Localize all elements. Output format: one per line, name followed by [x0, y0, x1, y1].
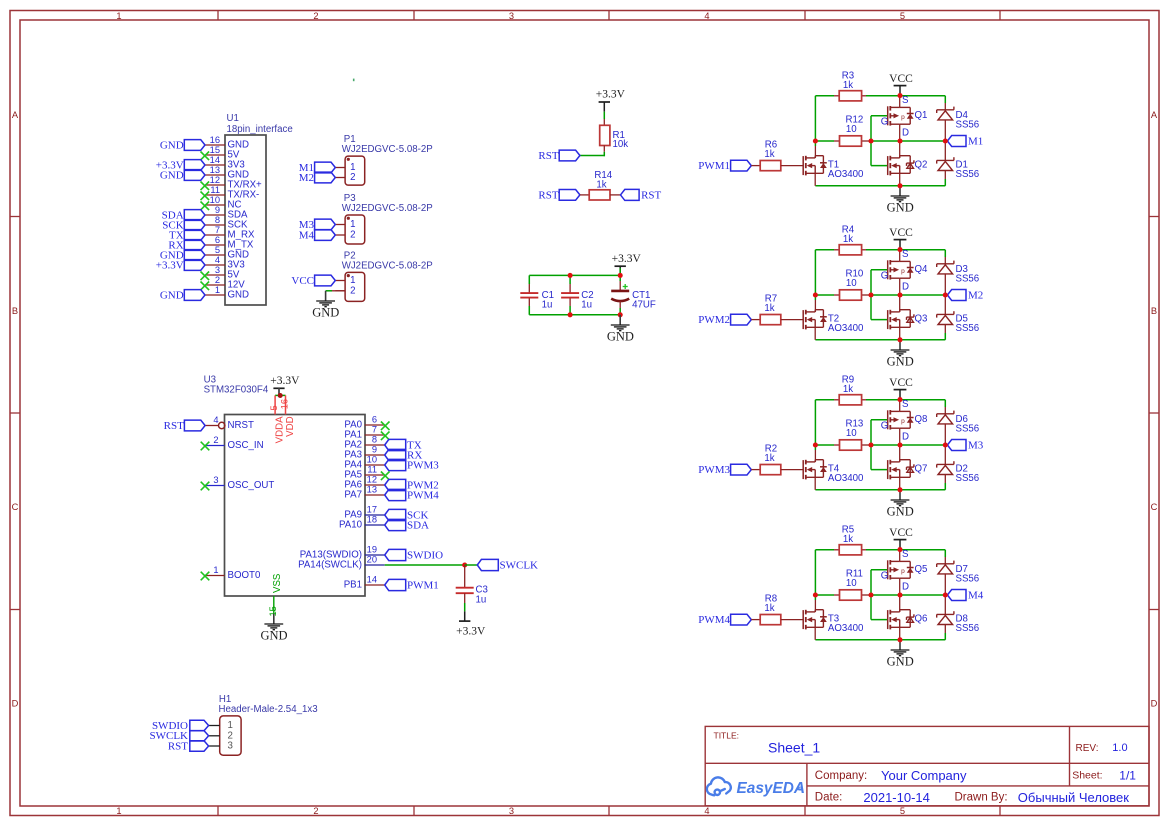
svg-text:16: 16: [280, 399, 290, 409]
svg-text:SS56: SS56: [956, 274, 980, 285]
svg-text:14: 14: [367, 575, 377, 585]
svg-text:15: 15: [268, 606, 278, 616]
svg-text:GND: GND: [260, 628, 287, 642]
svg-text:7: 7: [372, 425, 377, 435]
svg-text:1k: 1k: [843, 234, 853, 245]
svg-text:GND: GND: [887, 504, 914, 518]
svg-text:19: 19: [367, 545, 377, 555]
svg-text:GND: GND: [160, 169, 184, 181]
svg-text:D: D: [902, 431, 909, 442]
svg-text:1: 1: [116, 806, 121, 816]
svg-text:B: B: [12, 306, 18, 316]
svg-text:PA7: PA7: [344, 490, 362, 501]
svg-text:GND: GND: [228, 290, 250, 301]
svg-text:1: 1: [213, 565, 218, 575]
svg-text:VDDA: VDDA: [275, 416, 286, 443]
svg-text:SDA: SDA: [407, 519, 429, 531]
svg-text:G: G: [881, 420, 889, 431]
svg-text:15: 15: [210, 145, 220, 155]
svg-text:RST: RST: [168, 740, 188, 752]
svg-text:S: S: [902, 95, 909, 106]
svg-text:2: 2: [350, 172, 355, 183]
svg-text:VSS: VSS: [272, 573, 283, 593]
svg-text:SS56: SS56: [956, 574, 980, 585]
svg-text:p: p: [901, 114, 905, 121]
svg-text:8: 8: [215, 215, 220, 225]
svg-text:1: 1: [116, 11, 121, 21]
svg-text:5: 5: [900, 806, 905, 816]
svg-text:Q3: Q3: [915, 313, 928, 324]
svg-text:2: 2: [350, 285, 355, 296]
svg-text:1/1: 1/1: [1119, 768, 1136, 782]
svg-text:18pin_interface: 18pin_interface: [227, 124, 293, 135]
svg-text:p: p: [901, 568, 905, 575]
svg-text:GND: GND: [607, 329, 634, 343]
svg-text:2: 2: [313, 11, 318, 21]
svg-text:EasyEDA: EasyEDA: [737, 780, 805, 797]
svg-text:WJ2EDGVC-5.08-2P: WJ2EDGVC-5.08-2P: [342, 260, 433, 271]
svg-text:3: 3: [509, 11, 514, 21]
svg-text:SS56: SS56: [956, 473, 980, 484]
svg-text:4: 4: [213, 415, 218, 425]
svg-text:D: D: [902, 127, 909, 138]
svg-text:3: 3: [213, 475, 218, 485]
svg-text:VCC: VCC: [889, 377, 913, 389]
svg-text:Header-Male-2.54_1x3: Header-Male-2.54_1x3: [219, 704, 318, 715]
svg-text:G: G: [881, 116, 889, 127]
svg-text:2: 2: [215, 275, 220, 285]
svg-text:GND: GND: [160, 289, 184, 301]
svg-text:PA14(SWCLK): PA14(SWCLK): [298, 560, 362, 571]
svg-text:11: 11: [367, 465, 377, 475]
svg-text:1.0: 1.0: [1112, 742, 1127, 754]
svg-text:VCC: VCC: [291, 275, 314, 287]
svg-text:13: 13: [210, 165, 220, 175]
svg-text:5: 5: [215, 245, 220, 255]
svg-text:1k: 1k: [596, 179, 606, 190]
svg-text:1k: 1k: [843, 384, 853, 395]
svg-text:Sheet_1: Sheet_1: [768, 739, 820, 755]
svg-text:SS56: SS56: [956, 424, 980, 435]
svg-text:Q8: Q8: [915, 414, 928, 425]
svg-text:9: 9: [215, 205, 220, 215]
svg-text:1k: 1k: [764, 453, 774, 464]
svg-text:A: A: [12, 110, 19, 120]
svg-text:18: 18: [367, 515, 377, 525]
svg-text:7: 7: [215, 225, 220, 235]
svg-text:+3.3V: +3.3V: [456, 626, 486, 638]
svg-text:GND: GND: [160, 139, 184, 151]
svg-text:1u: 1u: [476, 595, 487, 606]
svg-text:16: 16: [210, 135, 220, 145]
svg-text:GND: GND: [312, 305, 339, 319]
svg-text:SWCLK: SWCLK: [500, 559, 539, 571]
svg-text:PWM1: PWM1: [698, 160, 730, 172]
svg-text:p: p: [901, 418, 905, 425]
svg-text:Q5: Q5: [915, 564, 928, 575]
svg-text:M2: M2: [968, 289, 983, 301]
svg-text:2: 2: [313, 806, 318, 816]
svg-text:Q1: Q1: [915, 110, 928, 121]
svg-text:10: 10: [846, 278, 857, 289]
svg-text:Обычный Человек: Обычный Человек: [1018, 790, 1129, 805]
svg-text:Q4: Q4: [915, 264, 929, 275]
svg-text:S: S: [902, 249, 909, 260]
svg-text:PWM1: PWM1: [407, 579, 439, 591]
svg-text:AO3400: AO3400: [828, 323, 864, 334]
svg-text:1k: 1k: [843, 534, 853, 545]
svg-text:PWM3: PWM3: [407, 459, 439, 471]
svg-text:1k: 1k: [843, 80, 853, 91]
svg-text:SS56: SS56: [956, 323, 980, 334]
svg-text:4: 4: [704, 11, 709, 21]
svg-text:WJ2EDGVC-5.08-2P: WJ2EDGVC-5.08-2P: [342, 203, 433, 214]
svg-text:AO3400: AO3400: [828, 623, 864, 634]
svg-text:17: 17: [367, 505, 377, 515]
svg-text:1: 1: [215, 285, 220, 295]
svg-text:G: G: [881, 270, 889, 281]
svg-text:B: B: [1151, 306, 1157, 316]
svg-text:M4: M4: [299, 229, 315, 241]
svg-text:AO3400: AO3400: [828, 473, 864, 484]
svg-text:20: 20: [367, 555, 377, 565]
svg-text:PB1: PB1: [344, 580, 362, 591]
svg-text:RST: RST: [641, 189, 661, 201]
svg-text:13: 13: [367, 485, 377, 495]
svg-text:S: S: [902, 399, 909, 410]
svg-text:NRST: NRST: [228, 420, 254, 431]
svg-text:10: 10: [846, 124, 857, 135]
svg-text:6: 6: [372, 415, 377, 425]
svg-text:C: C: [12, 502, 19, 512]
svg-text:STM32F030F4: STM32F030F4: [204, 384, 269, 395]
svg-text:SS56: SS56: [956, 623, 980, 634]
svg-text:1k: 1k: [764, 303, 774, 314]
svg-text:SWDIO: SWDIO: [407, 549, 443, 561]
svg-text:M3: M3: [968, 439, 984, 451]
svg-text:10: 10: [846, 428, 857, 439]
svg-text:6: 6: [215, 235, 220, 245]
svg-text:PWM2: PWM2: [698, 314, 730, 326]
svg-text:Drawn By:: Drawn By:: [955, 792, 1008, 804]
svg-text:U1: U1: [227, 113, 239, 124]
svg-text:PWM3: PWM3: [698, 464, 730, 476]
svg-text:GND: GND: [887, 654, 914, 668]
svg-text:1u: 1u: [581, 300, 592, 311]
svg-text:VDD: VDD: [285, 416, 296, 436]
svg-text:TITLE:: TITLE:: [714, 730, 740, 740]
svg-text:10k: 10k: [613, 139, 629, 150]
svg-text:D: D: [12, 698, 19, 708]
svg-text:M4: M4: [968, 589, 984, 601]
svg-text:+3.3V: +3.3V: [612, 253, 642, 265]
svg-text:RST: RST: [538, 150, 558, 162]
svg-text:GND: GND: [887, 200, 914, 214]
svg-text:10: 10: [846, 578, 857, 589]
svg-text:C: C: [1151, 502, 1158, 512]
svg-text:Company:: Company:: [815, 770, 867, 782]
svg-text:BOOT0: BOOT0: [228, 570, 261, 581]
svg-text:RST: RST: [164, 420, 184, 432]
svg-text:14: 14: [210, 155, 220, 165]
svg-text:RST: RST: [538, 189, 558, 201]
svg-text:12: 12: [367, 475, 377, 485]
svg-text:1: 1: [350, 219, 355, 230]
svg-text:2: 2: [213, 435, 218, 445]
svg-text:Sheet:: Sheet:: [1072, 770, 1102, 782]
svg-text:5: 5: [900, 11, 905, 21]
svg-text:M1: M1: [968, 135, 983, 147]
svg-text:10: 10: [210, 195, 220, 205]
svg-text:VCC: VCC: [889, 227, 913, 239]
svg-text:4: 4: [215, 255, 220, 265]
svg-text:2021-10-14: 2021-10-14: [863, 790, 930, 805]
svg-text:PWM4: PWM4: [407, 489, 439, 501]
svg-text:Q7: Q7: [915, 463, 928, 474]
svg-text:4: 4: [704, 806, 709, 816]
svg-text:PWM4: PWM4: [698, 614, 730, 626]
svg-text:+3.3V: +3.3V: [596, 89, 626, 101]
svg-text:12: 12: [210, 175, 220, 185]
svg-text:3: 3: [228, 741, 233, 752]
svg-text:Q6: Q6: [915, 613, 928, 624]
svg-text:Q2: Q2: [915, 159, 928, 170]
svg-text:1k: 1k: [764, 149, 774, 160]
svg-text:WJ2EDGVC-5.08-2P: WJ2EDGVC-5.08-2P: [342, 144, 433, 155]
svg-text:Date:: Date:: [815, 792, 843, 804]
svg-text:OSC_IN: OSC_IN: [228, 440, 264, 451]
svg-text:1u: 1u: [542, 300, 553, 311]
svg-text:D: D: [1151, 698, 1158, 708]
svg-text:5: 5: [269, 405, 279, 410]
svg-text:G: G: [881, 570, 889, 581]
svg-text:8: 8: [372, 435, 377, 445]
svg-text:D: D: [902, 281, 909, 292]
svg-text:REV:: REV:: [1076, 743, 1099, 754]
svg-text:3: 3: [509, 806, 514, 816]
svg-text:OSC_OUT: OSC_OUT: [228, 480, 275, 491]
svg-text:SS56: SS56: [956, 169, 980, 180]
svg-text:10: 10: [367, 455, 377, 465]
svg-text:M2: M2: [299, 172, 314, 184]
svg-text:11: 11: [210, 185, 220, 195]
svg-text:VCC: VCC: [889, 73, 913, 85]
svg-text:Your Company: Your Company: [881, 768, 967, 783]
svg-text:1k: 1k: [764, 603, 774, 614]
svg-text:AO3400: AO3400: [828, 169, 864, 180]
svg-text:2: 2: [350, 230, 355, 241]
svg-text:SS56: SS56: [956, 120, 980, 131]
svg-text:p: p: [901, 268, 905, 275]
svg-text:VCC: VCC: [889, 527, 913, 539]
svg-text:GND: GND: [887, 354, 914, 368]
svg-text:3: 3: [215, 265, 220, 275]
svg-text:+3.3V: +3.3V: [270, 375, 300, 387]
svg-text:S: S: [902, 549, 909, 560]
svg-text:9: 9: [372, 445, 377, 455]
svg-text:+3.3V: +3.3V: [156, 259, 184, 271]
svg-text:A: A: [1151, 110, 1158, 120]
svg-text:D: D: [902, 581, 909, 592]
svg-text:47UF: 47UF: [632, 300, 656, 311]
svg-text:PA10: PA10: [339, 520, 363, 531]
